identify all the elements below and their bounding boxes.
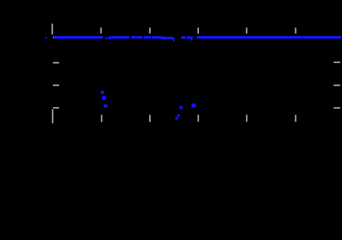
top axis tick x=101.4 xyxy=(100,28,102,34)
left axis tick remnant y=37.4 xyxy=(53,36,54,38)
flat segment 1 xyxy=(54,36,103,39)
dip tail x=173.8 xyxy=(173,39,175,42)
bottom axis tick x=246.7 xyxy=(246,115,248,122)
right axis tick y=62.3 xyxy=(334,61,341,63)
top axis tick x=149.8 xyxy=(149,28,151,34)
notch 1 descending marker dots xyxy=(101,91,108,108)
notch1 dot a xyxy=(101,91,105,95)
notch3 dot d (merged pair) xyxy=(191,103,196,108)
right axis tick y=107.9 xyxy=(334,107,341,109)
notch3 dot a xyxy=(175,117,178,120)
flat segment 3 xyxy=(131,36,142,39)
blue response curve, flat top with notch gaps xyxy=(45,36,341,41)
flat segment 5 sagging toward notch 2 xyxy=(152,37,174,38)
top axis tick x=295.7 xyxy=(295,28,297,34)
notch1 dot b (merged pair) xyxy=(102,96,107,101)
bottom axis long tick x=52.6 xyxy=(52,109,54,123)
flat segment 2 xyxy=(108,36,130,39)
axis tick marks, gray xyxy=(52,24,340,124)
right axis tick y=85.3 xyxy=(334,84,341,86)
top axis tick x=246.5 xyxy=(246,28,248,34)
notch3 dot b xyxy=(177,114,180,117)
left axis tick y=62.7 xyxy=(53,62,59,64)
dash over notch 3b xyxy=(187,36,193,39)
flat segment 4 xyxy=(144,36,151,39)
bottom axis tick x=295.7 xyxy=(295,115,297,122)
notch 3 rising marker dots xyxy=(175,103,196,120)
long flat segment right xyxy=(197,36,341,39)
left axis tick y=85.3 xyxy=(53,84,59,86)
recovery dot right of notch 1 xyxy=(105,37,107,39)
notch1 dot c xyxy=(104,104,108,108)
bottom axis tick x=149.8 xyxy=(149,115,151,122)
bottom axis tick x=198.3 xyxy=(197,115,199,122)
small dip bump x=164.6 xyxy=(164,38,166,40)
leading marker dot x=46.4 xyxy=(45,37,47,39)
bottom axis tick x=101.8 xyxy=(101,115,103,122)
top axis long tick x=52.4 xyxy=(51,24,53,35)
left axis tick y=107.8 xyxy=(53,107,59,109)
dash over notch 3 xyxy=(181,36,186,39)
top axis tick x=198.1 xyxy=(197,28,199,34)
dip tail x=191.3 xyxy=(191,39,193,41)
notch3 dot c xyxy=(179,106,182,109)
